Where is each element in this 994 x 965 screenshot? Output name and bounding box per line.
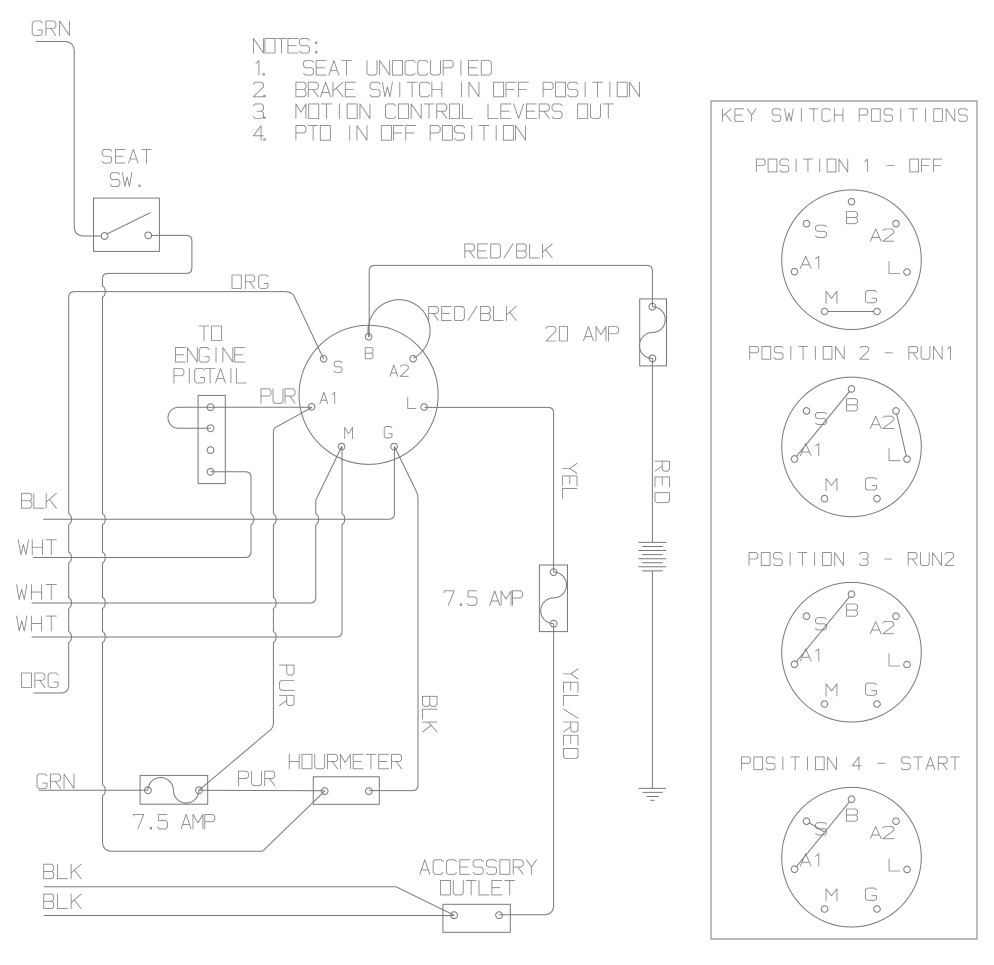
terminal S position 3 — [803, 613, 826, 630]
fuse 7.5 AMP accessory — [444, 565, 567, 632]
wire GRN to hour fuse — [37, 774, 148, 790]
terminal L position 4 — [889, 859, 910, 873]
terminal B position 4 — [847, 796, 858, 821]
contact S branch position 4 — [809, 823, 825, 833]
terminal A1 position 3 — [791, 649, 819, 668]
terminal M of key switch — [338, 427, 352, 450]
position 1 heading — [756, 159, 942, 172]
position 4 heading — [742, 757, 960, 770]
terminal A2 position 2 — [870, 408, 899, 429]
terminal L position 2 — [889, 449, 910, 463]
fuse 7.5 AMP hourmeter — [134, 775, 215, 829]
wire BLK outlet 2 — [44, 894, 454, 915]
wire BLK G to hourmeter — [369, 446, 437, 790]
wire YEL/RED — [499, 624, 578, 915]
terminal S position 1 — [803, 220, 826, 237]
terminal S position 4 — [803, 818, 826, 835]
terminal G position 3 — [866, 683, 881, 707]
terminal A2 of key switch — [390, 356, 416, 377]
terminal M position 2 — [821, 479, 837, 503]
key switch position 3 body — [782, 582, 922, 722]
terminal G of key switch — [384, 427, 397, 450]
key switch positions panel — [711, 101, 977, 939]
wire RED — [652, 358, 669, 542]
terminal G position 1 — [866, 291, 881, 315]
contact A2-L position 2 — [897, 413, 907, 456]
contact B-A1 position 2 — [796, 391, 850, 457]
jumper RED/BLK B-A2 — [368, 300, 516, 359]
wire battery negative — [651, 571, 653, 789]
terminal L position 1 — [889, 261, 910, 275]
wire ORG — [22, 275, 324, 693]
terminal A1 of key switch — [308, 392, 334, 410]
terminal B position 2 — [847, 386, 858, 411]
key switch body — [299, 325, 438, 464]
terminal G position 2 — [866, 478, 881, 502]
wire PUR A1 to pigtail — [211, 389, 312, 407]
wire RED/BLK battery feed — [369, 244, 652, 337]
terminal M position 3 — [821, 684, 837, 708]
terminal B of key switch — [365, 334, 373, 359]
ground — [639, 788, 667, 800]
position 3 heading — [749, 553, 954, 566]
wire YEL — [425, 407, 578, 572]
wire seat-switch return to hourmeter — [103, 235, 325, 851]
note list — [253, 38, 639, 140]
terminal L position 3 — [889, 654, 910, 668]
position 2 heading — [750, 346, 951, 359]
terminal S position 2 — [803, 408, 826, 425]
wire GRN seat-switch supply — [32, 21, 102, 236]
contact M-G position 1 — [828, 311, 874, 313]
terminal A1 position 2 — [791, 444, 819, 463]
terminal A1 position 4 — [791, 854, 819, 873]
wire BLK outlet 1 — [44, 864, 454, 915]
hourmeter — [289, 754, 401, 804]
terminal B position 3 — [847, 591, 858, 616]
wire WHT to M — [17, 446, 345, 637]
terminal A2 position 4 — [870, 818, 899, 839]
connector engine pigtail — [174, 326, 246, 484]
terminal S of key switch — [320, 356, 342, 373]
terminal M position 1 — [821, 291, 837, 315]
terminal M position 4 — [821, 889, 837, 913]
battery BT1 — [638, 542, 666, 571]
terminal G position 4 — [866, 888, 881, 912]
key switch position 2 body — [782, 377, 922, 517]
contact B-A1 position 3 — [796, 596, 850, 662]
wire WHT pigtail pin4 — [18, 472, 253, 558]
terminal B position 1 — [847, 198, 858, 223]
wire jumper pigtail pin1-pin2 — [168, 407, 211, 428]
wire PUR A1 to hour fuse — [199, 407, 312, 790]
terminal A1 position 1 — [791, 256, 819, 275]
wire BLK to G — [22, 446, 395, 519]
terminal A2 position 1 — [870, 220, 899, 241]
fuse 20 AMP — [546, 299, 667, 366]
accessory outlet — [420, 860, 537, 933]
key switch position 1 body — [782, 190, 922, 330]
contact B-A1 position 4 — [796, 801, 850, 867]
seat switch SEAT SW. — [94, 149, 160, 251]
wire PUR fuse to hourmeter — [199, 771, 325, 791]
terminal A2 position 3 — [870, 613, 899, 634]
terminal L of key switch — [408, 397, 428, 410]
wire WHT to M diag — [17, 446, 342, 603]
key switch position 4 body — [782, 787, 922, 927]
